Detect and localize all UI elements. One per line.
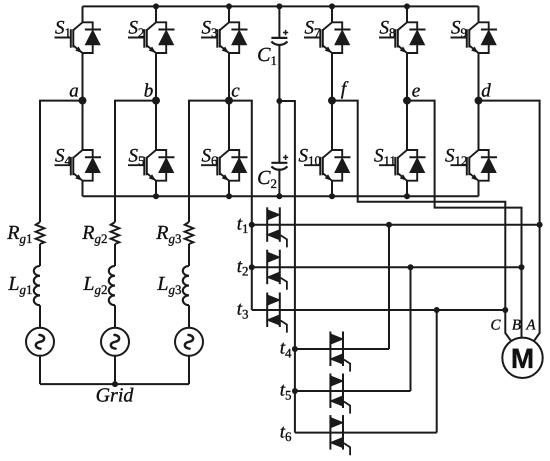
- triac t6: [330, 415, 350, 455]
- triac t1: [267, 207, 287, 247]
- junction dots t2 line: [408, 264, 414, 270]
- transistor S2: [128, 6, 175, 100]
- inductor Lg3: [183, 266, 189, 305]
- resistor Rg3: [185, 222, 194, 244]
- transistor S11: [379, 101, 426, 197]
- motor M: [502, 338, 542, 378]
- node c: [189, 98, 232, 222]
- wire Rg3 to Lg3: [188, 244, 190, 266]
- wire Lg2 to source 2: [114, 305, 116, 328]
- wire t1 line: [252, 224, 540, 226]
- node d: [476, 98, 540, 342]
- wire top DC rail: [83, 5, 479, 7]
- wire t2 line: [252, 266, 522, 268]
- wire t4 line: [295, 348, 389, 350]
- junction dots bottom rail: [153, 193, 159, 199]
- svg-text:Grid: Grid: [96, 385, 135, 407]
- transistor S7: [304, 6, 351, 100]
- transistor S5: [128, 101, 175, 197]
- wire t6 line: [295, 432, 437, 434]
- wire DC midpoint to triac bank t4-t6: [279, 101, 295, 433]
- transistor S3: [201, 6, 248, 100]
- wire Lg1 to source 1: [39, 305, 41, 328]
- wire Rg1 to Lg1: [39, 244, 41, 266]
- resistor Rg2: [111, 222, 120, 244]
- wire grid bus: [40, 383, 189, 385]
- svg-text:M: M: [511, 343, 534, 374]
- wire t5 line: [295, 390, 411, 392]
- triac t2: [267, 250, 287, 290]
- resistor Rg1: [36, 222, 45, 244]
- junction dots t3 line: [434, 307, 440, 313]
- transistor S12: [451, 101, 498, 197]
- node b: [115, 98, 159, 222]
- AC source phase 2: [101, 328, 129, 384]
- capacitor C2: [271, 101, 288, 196]
- svg-text:b: b: [144, 81, 154, 102]
- inductor Lg1: [34, 266, 40, 305]
- capacitor C1: [271, 6, 288, 101]
- svg-text:c: c: [231, 81, 240, 102]
- wire bottom DC rail: [83, 195, 479, 197]
- transistor S1: [55, 6, 102, 100]
- wire motor phase C drop: [505, 310, 511, 341]
- junction dots t1 line: [386, 222, 392, 228]
- AC source phase 3: [175, 328, 203, 384]
- AC source phase 1: [26, 328, 54, 384]
- wire Rg2 to Lg2: [114, 244, 116, 266]
- wire t6 to t3 riser: [436, 310, 438, 433]
- wire t4 to t1 riser: [388, 225, 390, 349]
- junction dots top rail: [153, 3, 159, 9]
- wire Lg3 to source 3: [188, 305, 190, 328]
- transistor S10: [304, 101, 351, 197]
- junction dots c feeder: [249, 222, 255, 228]
- triac t5: [330, 374, 350, 414]
- svg-text:B: B: [512, 318, 521, 334]
- inductor Lg2: [109, 266, 115, 305]
- transistor S9: [451, 6, 498, 100]
- node e: [404, 98, 522, 338]
- wire c to triac bank t1-t3: [229, 101, 252, 310]
- svg-text:a: a: [69, 81, 79, 102]
- svg-text:C: C: [490, 318, 501, 334]
- transistor S8: [379, 6, 426, 100]
- node f: [329, 98, 505, 310]
- transistor S6: [201, 101, 248, 197]
- wire t5 to t2 riser: [410, 267, 412, 391]
- wire t3 line: [252, 309, 505, 311]
- junction dots midpoint feeder: [292, 346, 298, 352]
- transistor S4: [55, 101, 102, 197]
- svg-text:d: d: [481, 81, 491, 102]
- svg-text:e: e: [412, 81, 420, 102]
- node a: [40, 98, 86, 222]
- junction dot grid bus: [112, 381, 118, 387]
- triac t4: [330, 332, 350, 372]
- triac t3: [267, 293, 287, 333]
- junction dot DC midpoint: [276, 98, 282, 104]
- svg-text:A: A: [525, 318, 536, 334]
